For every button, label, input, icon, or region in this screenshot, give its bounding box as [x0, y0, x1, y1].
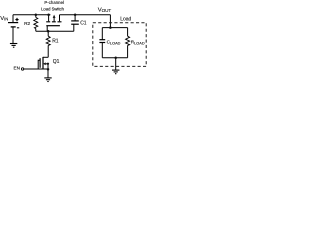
Q1 gate bar — [39, 58, 41, 68]
Q1 body arrowhead — [43, 62, 46, 65]
resistor R2 leads — [35, 15, 37, 32]
EN terminal circle — [21, 68, 23, 70]
pmos gate bar — [46, 25, 60, 27]
junction dot gate node — [47, 30, 50, 33]
battery V1 top lead — [12, 15, 14, 22]
junction dot C1/rail — [74, 13, 77, 16]
battery bottom lead — [12, 27, 14, 43]
resistor R1 zigzag — [46, 36, 50, 45]
cap CLOAD top lead — [101, 28, 103, 40]
svg-text:R2: R2 — [24, 21, 30, 27]
junction dot Q1 body/source — [47, 63, 49, 65]
svg-text:VOUT: VOUT — [98, 8, 112, 14]
capacitor C1 riser from gate wire — [73, 24, 75, 31]
pmos gate lead — [46, 26, 48, 31]
battery minus sign — [17, 27, 19, 29]
Q1 source ground lead — [47, 69, 49, 77]
pmos body arrowhead — [53, 15, 56, 18]
load box top bus — [102, 27, 127, 29]
svg-text:R1: R1 — [52, 38, 59, 44]
ground (battery) — [10, 43, 17, 45]
Q1 channel bar — [42, 57, 44, 69]
battery plus sign — [15, 18, 18, 21]
Q1 gate riser — [38, 60, 40, 69]
pmos channel bars — [46, 21, 61, 23]
svg-text:P-channel: P-channel — [44, 0, 64, 5]
resistor R2 zigzag — [34, 17, 38, 28]
Q1 body arrow line — [46, 63, 48, 65]
junction dot PMOS source/rail — [47, 13, 50, 16]
junction dot load ground — [114, 56, 117, 59]
svg-text:Load: Load — [120, 17, 131, 23]
svg-text:Q1: Q1 — [53, 59, 60, 65]
wire top rail right (PMOS drain to VOUT corner) — [60, 14, 111, 16]
svg-text:EN: EN — [14, 65, 20, 70]
junction dot box entry — [109, 26, 112, 29]
wire VOUT corner down into load box — [109, 15, 111, 28]
load box dashed outline — [93, 23, 146, 67]
pmos source leg — [48, 15, 50, 22]
wire gate node horizontal — [36, 30, 74, 32]
capacitor C1 top lead — [74, 15, 76, 21]
cap CLOAD bottom lead — [101, 43, 103, 58]
Q1 drain stub — [43, 56, 48, 58]
wire R1 bottom to Q1 drain — [47, 45, 49, 57]
battery V1 plates — [8, 22, 18, 24]
ground (Q1) — [44, 77, 51, 79]
pmos drain leg — [59, 15, 61, 22]
junction dot Q1 source/ground — [47, 68, 50, 71]
wire top rail left (VIN to PMOS source) — [13, 14, 50, 16]
capacitor C1 plates — [71, 23, 79, 25]
Q1 body tie vertical — [47, 64, 49, 69]
svg-text:Load Switch: Load Switch — [41, 7, 64, 12]
load box bottom bus — [102, 57, 127, 59]
junction dot R2/rail — [35, 13, 38, 16]
svg-text:VIN: VIN — [0, 16, 8, 22]
resistor RLOAD zigzag — [126, 36, 130, 45]
svg-text:CLOAD: CLOAD — [107, 40, 121, 46]
resistor RLOAD bottom lead — [127, 45, 129, 57]
pmos body leg — [53, 17, 55, 21]
resistor R1 top lead — [47, 31, 49, 36]
wire EN to Q1 — [24, 68, 48, 70]
ground (load) — [112, 69, 119, 71]
wire load ground exit — [115, 58, 117, 70]
resistor RLOAD top lead — [127, 28, 129, 37]
cap CLOAD plates — [99, 39, 105, 41]
svg-text:C1: C1 — [80, 20, 87, 26]
svg-text:RLOAD: RLOAD — [131, 40, 145, 46]
